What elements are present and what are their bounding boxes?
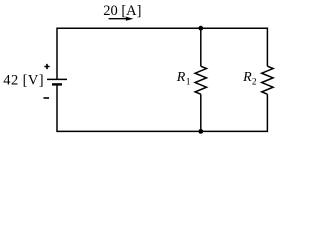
wire: battery + terminal up left side and along top to node A (57, 28, 201, 79)
svg-text:42 [V]: 42 [V] (3, 72, 44, 88)
svg-text:20 [A]: 20 [A] (103, 3, 141, 19)
resistor R2 (262, 66, 273, 94)
node B (bottom junction dot) (198, 129, 203, 134)
wire: bottom from node B back to battery - terminal (57, 84, 201, 131)
svg-text:2: 2 (252, 78, 257, 88)
label R1 (176, 70, 191, 88)
wire: top from node A to R2 branch top lead (201, 28, 268, 66)
svg-text:R: R (176, 70, 186, 85)
minus sign at battery - terminal (44, 97, 50, 99)
wire: R1 branch top lead from node A (200, 28, 202, 66)
label R2 (242, 70, 257, 88)
plus sign at battery + terminal (44, 64, 49, 69)
svg-text:R: R (242, 70, 252, 85)
battery V1 (42 V source): long thin + plate and short thick - plate (47, 79, 67, 84)
current arrow (20 A, pointing right) (109, 17, 134, 21)
node A (top junction dot) (198, 26, 203, 31)
resistor R1 (195, 66, 206, 94)
svg-text:1: 1 (186, 78, 191, 88)
wire: R2 branch bottom lead to node B (201, 94, 268, 131)
wire: R1 branch bottom lead to node B (200, 94, 202, 131)
